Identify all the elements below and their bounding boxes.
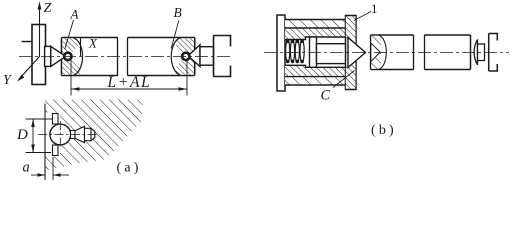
left cap edge [80, 38, 82, 57]
piston flange of floating centre [310, 37, 317, 67]
centerline main axis (a) [19, 56, 232, 58]
center hole arc [74, 38, 83, 75]
body cylinder [85, 128, 92, 140]
svg-text:(a): (a) [117, 161, 142, 176]
left center cone [51, 46, 66, 66]
leader C [333, 71, 355, 88]
sleeve outlines [285, 28, 346, 77]
dimension line L+AL [71, 88, 187, 90]
hole wedge white (b) [371, 43, 380, 62]
neck [71, 131, 76, 139]
tailstock body (b) [489, 34, 498, 72]
leader A [65, 20, 74, 49]
taper body [75, 126, 85, 142]
center hole clear zone [45, 113, 60, 157]
workpiece end face line [44, 104, 46, 181]
svg-text:C: C [321, 88, 331, 104]
spindle plate (b) [277, 15, 285, 91]
tail quill (b) [478, 44, 485, 61]
driver plate [32, 25, 46, 85]
right center cone [188, 45, 200, 67]
detail centerline horizontal [38, 134, 100, 136]
svg-text:(b): (b) [371, 123, 397, 138]
workpiece body (a) [62, 38, 195, 76]
centre stem [317, 44, 349, 64]
workpiece end hatch (b) [371, 36, 381, 69]
chamfered tip [91, 128, 95, 140]
hole lip top [53, 114, 59, 125]
ball of center, dia D [50, 124, 71, 145]
dimension D line [32, 119, 34, 153]
collar hatch bottom [346, 61, 356, 89]
svg-text:1: 1 [371, 1, 378, 16]
axis Z [39, 8, 41, 57]
svg-text:D: D [16, 127, 28, 143]
shaft break lines [117, 38, 119, 76]
collar hatch top [346, 16, 356, 44]
dimension D extension lines [26, 118, 54, 120]
svg-text:A: A [70, 7, 79, 22]
collar at sleeve face [346, 16, 357, 90]
leader 1 [354, 12, 371, 21]
hole lip bottom [53, 145, 59, 156]
ball tip B [182, 53, 189, 60]
svg-text:X: X [88, 36, 98, 51]
ball tip A [64, 53, 71, 60]
sleeve wall hatch top [285, 28, 346, 40]
spring wire dots [286, 39, 304, 63]
centre cone (b) [348, 38, 366, 68]
break lines (b) [413, 35, 415, 70]
left live center body [45, 46, 51, 66]
hole arc (b) [379, 35, 387, 69]
dimension L+AL extension lines [70, 59, 72, 96]
dimension a lines and arrows [31, 174, 45, 176]
tail centre bell tip (b) [474, 40, 477, 66]
spring coils [286, 40, 305, 63]
spindle outer hatch top [285, 20, 346, 29]
centerline (b) [264, 51, 509, 53]
right hole wedge (white) [170, 46, 186, 67]
left center hole hatched cap [62, 38, 80, 74]
sleeve wall hatch bottom [285, 65, 346, 76]
dimension a extension line [52, 157, 54, 180]
leader B [171, 21, 179, 49]
tailstock body (a) [214, 36, 231, 77]
spindle outline [285, 20, 346, 86]
tailstock quill (a) [200, 47, 214, 65]
right center hole hatched cap [176, 38, 194, 74]
hatched broken-out section [45, 100, 143, 171]
svg-text:a: a [23, 160, 30, 176]
right center hole arc [171, 38, 180, 75]
workpiece (b) [371, 35, 471, 70]
clamp stub line [22, 41, 33, 43]
svg-text:L+AL: L+AL [107, 74, 152, 91]
detail center mark vertical [59, 121, 61, 149]
axis Y [21, 57, 40, 78]
spindle outer hatch bottom [285, 77, 346, 85]
svg-text:Z: Z [44, 1, 52, 16]
center hole wedge (white) [68, 46, 84, 67]
svg-text:B: B [174, 5, 182, 20]
